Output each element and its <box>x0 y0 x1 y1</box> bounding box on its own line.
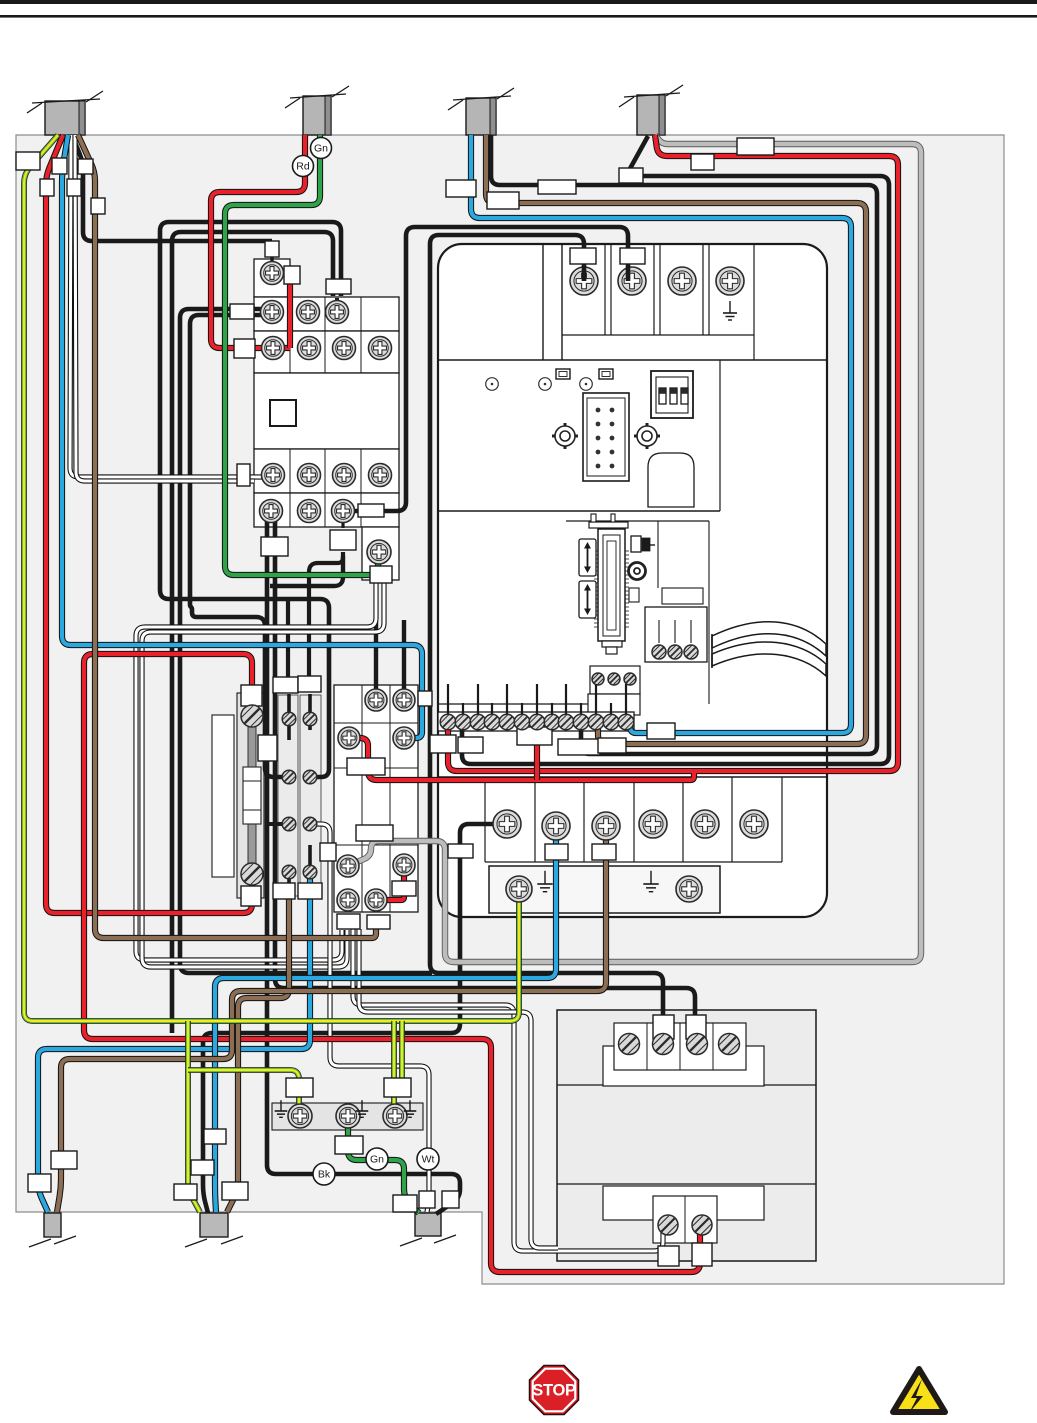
svg-text:Rd: Rd <box>296 161 310 173</box>
svg-text:Gn: Gn <box>314 143 328 155</box>
svg-text:Gn: Gn <box>370 1154 384 1166</box>
svg-text:STOP: STOP <box>532 1382 576 1400</box>
svg-text:Wt: Wt <box>422 1154 435 1166</box>
svg-text:Bk: Bk <box>318 1169 331 1181</box>
